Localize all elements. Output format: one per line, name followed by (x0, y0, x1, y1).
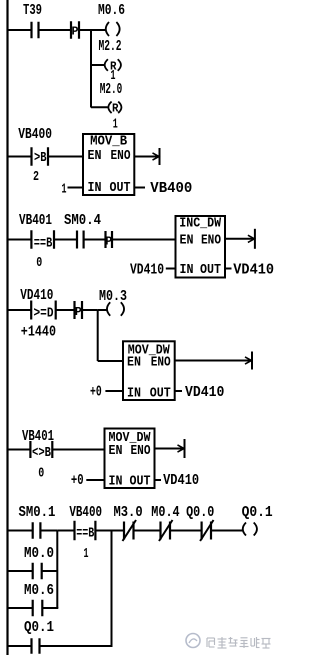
svg-text:<>B: <>B (32, 446, 51, 461)
label VB400 (rung 6) (69, 505, 102, 521)
value VD410 at OUT (INC_DW) (233, 263, 274, 279)
wire M0.6 to node C line (43, 607, 59, 609)
wire compare to SM0.4 contact (55, 239, 78, 241)
pin OUT (INC_DW) (200, 263, 221, 278)
label T39 (23, 3, 42, 19)
value 1 below M2.0 reset (113, 118, 118, 133)
wire ==B to node D (96, 530, 112, 532)
svg-text:OUT: OUT (150, 387, 171, 402)
wire P to node B (83, 309, 98, 311)
svg-text:1: 1 (62, 183, 67, 198)
value VD410 at IN (INC_DW) (130, 263, 164, 279)
wire node D to M3.0 contact (112, 530, 125, 532)
reset coil M2.0 (R) (108, 102, 121, 116)
wire +0 to IN (rung 5) (86, 479, 104, 481)
pin ENO (MOV_B) (111, 149, 131, 164)
wire OUT to VB400 (134, 187, 145, 189)
box MOV_B (83, 134, 134, 195)
svg-text:IN: IN (127, 387, 141, 402)
label VD410 (rung 4) (20, 288, 53, 304)
wire node C to compare ==B (rung 6) (57, 530, 74, 532)
box MOV_DW (rung 4) (123, 341, 175, 400)
value 2 below compare (33, 170, 39, 185)
label Q0.1 (coil label) (242, 505, 273, 521)
pin IN (MOV_DW rung 4) (127, 387, 141, 402)
wire M0.4 to Q0.0 (171, 530, 202, 532)
label VB401 (rung 5) (22, 429, 54, 445)
title INC_DW (179, 217, 222, 232)
value +0 at IN (rung 5) (71, 473, 84, 489)
svg-text:P: P (75, 305, 82, 319)
svg-text:1: 1 (113, 118, 118, 133)
label VB400 (rung 2) (18, 127, 52, 143)
label M0.6 (parallel branch) (24, 583, 54, 599)
contact M0.0 (33, 563, 42, 580)
wire branch to EN (MOV_DW rung 4) (98, 360, 123, 362)
value 0 below compare <>B (38, 467, 44, 482)
edge contact P (rung 4) (75, 301, 83, 319)
svg-text:VB400: VB400 (150, 181, 192, 197)
arrow out of ENO (MOV_DW rung 5) (155, 439, 185, 458)
wire +0 to IN (rung 4) (105, 390, 123, 392)
svg-text:M0.0: M0.0 (24, 546, 54, 562)
contact SM0.1 (33, 522, 41, 539)
pin ENO (INC_DW) (201, 234, 221, 249)
pin OUT (MOV_DW rung 4) (150, 387, 171, 402)
label M3.0 (114, 505, 143, 521)
value 1 below ==B (rung 6) (84, 547, 89, 562)
svg-text:VD410: VD410 (233, 263, 274, 279)
svg-text:2: 2 (33, 170, 39, 185)
compare contact >=D (31, 301, 56, 322)
svg-text:>B: >B (34, 151, 47, 166)
svg-text:+0: +0 (90, 385, 102, 401)
left power rail (6, 0, 8, 655)
svg-text:ENO: ENO (151, 356, 171, 371)
wire OUT to VD410 (rung 5) (155, 479, 162, 481)
svg-text:VB401: VB401 (19, 213, 52, 229)
reset coil M2.2 (R) (105, 59, 121, 73)
svg-text:0: 0 (38, 467, 44, 482)
wire Q0.1 contact to node D line (40, 645, 113, 647)
compare contact ==B (31, 230, 54, 251)
pin EN (MOV_DW rung 4) (127, 356, 141, 371)
label M0.6 (98, 3, 125, 19)
wire rail to Q0.1 contact (9, 645, 32, 647)
svg-text:SM0.1: SM0.1 (19, 505, 56, 521)
wire OUT to VD410 (rung 4) (175, 390, 182, 392)
compare contact <>B (30, 441, 52, 461)
svg-text:==B: ==B (34, 236, 53, 251)
wire P to INC_DW box (113, 239, 176, 241)
svg-text:ENO: ENO (201, 234, 221, 249)
svg-text:M0.6: M0.6 (24, 583, 54, 599)
label M2.2 (99, 39, 122, 55)
pin OUT (MOV_B) (110, 181, 131, 196)
arrow out of ENO (MOV_DW rung 4) (175, 352, 252, 370)
node B branch wire down (97, 310, 99, 361)
wire rail to SM0.1 contact (9, 530, 33, 532)
label M0.0 (24, 546, 54, 562)
contact M0.6 (parallel branch) (33, 600, 43, 617)
svg-text:ENO: ENO (111, 149, 131, 164)
svg-text:EN: EN (127, 356, 141, 371)
svg-text:P: P (105, 234, 112, 248)
svg-text:M0.4: M0.4 (151, 505, 180, 521)
edge contact P (rung 3) (105, 231, 112, 248)
svg-text:SM0.4: SM0.4 (64, 213, 101, 229)
svg-text:VB400: VB400 (69, 505, 102, 521)
label M0.4 (151, 505, 180, 521)
wire P to node A (79, 29, 92, 31)
svg-text:ENO: ENO (131, 444, 151, 459)
title MOV_DW (rung 5) (109, 431, 152, 446)
wire rail to T39 contact (9, 29, 32, 31)
label Q0.0 (186, 505, 214, 521)
svg-text:>=D: >=D (34, 306, 54, 321)
svg-text:EN: EN (180, 234, 194, 249)
wire T39 to P contact (40, 29, 72, 31)
NC contact M0.4 (159, 520, 173, 541)
pin IN (MOV_B) (88, 181, 102, 196)
svg-text:M0.3: M0.3 (99, 289, 127, 305)
svg-text:IN: IN (180, 263, 194, 278)
svg-text:VD410: VD410 (130, 263, 164, 279)
wire value 1 to IN (68, 187, 84, 189)
NC contact M3.0 (123, 520, 137, 541)
value 1 at IN (MOV_B) (62, 183, 67, 198)
coil M0.3 (107, 302, 124, 316)
svg-text:M3.0: M3.0 (114, 505, 143, 521)
coil M0.6 (106, 22, 120, 36)
wire node B to coil M0.3 (98, 309, 107, 311)
svg-text:M2.0: M2.0 (100, 82, 123, 98)
svg-text:OUT: OUT (200, 263, 221, 278)
compare contact ==B (rung 6) (75, 521, 96, 542)
edge contact P (rung 1) (71, 21, 79, 39)
wire OUT to VD410 (INC_DW) (225, 268, 232, 270)
svg-text:M0.6: M0.6 (98, 3, 125, 19)
coil Q0.1 (243, 523, 257, 536)
wire VD410 to IN (166, 268, 176, 270)
value 1 below M2.2 reset (111, 69, 116, 84)
wire rail to M0.6 contact (9, 607, 33, 609)
svg-text:EN: EN (109, 444, 123, 459)
svg-text:R: R (112, 102, 119, 116)
svg-text:M2.2: M2.2 (99, 39, 122, 55)
wire M3.0 to M0.4 (134, 530, 161, 532)
NC contact Q0.0 (200, 520, 213, 541)
wire branch to reset coil M2.2 (91, 64, 105, 66)
value VB400 at OUT (150, 181, 192, 197)
svg-text:VD410: VD410 (185, 385, 224, 401)
wire SM0.4 to P contact (84, 239, 106, 241)
svg-text:MOV_B: MOV_B (90, 135, 127, 150)
value +0 at IN (rung 4) (90, 385, 102, 401)
node C branch wire down (56, 531, 58, 609)
svg-text:Q0.0: Q0.0 (186, 505, 214, 521)
svg-text:EN: EN (88, 149, 102, 164)
wire compare to MOV_DW box (rung 5) (53, 449, 105, 451)
title MOV_DW (rung 4) (128, 343, 171, 358)
svg-text:VD410: VD410 (20, 288, 53, 304)
svg-text:1: 1 (84, 547, 89, 562)
wire node A to coil M0.6 (91, 29, 106, 31)
pin ENO (MOV_DW rung 5) (131, 444, 151, 459)
value VD410 at OUT (rung 4) (185, 385, 224, 401)
pin IN (MOV_DW rung 5) (109, 475, 123, 490)
node A branch wire down (90, 29, 92, 108)
svg-text:VB400: VB400 (18, 127, 52, 143)
svg-text:+0: +0 (71, 473, 84, 489)
wire branch to reset coil M2.0 (91, 106, 108, 108)
pin EN (MOV_B) (88, 149, 102, 164)
label M2.0 (100, 82, 123, 98)
svg-text:IN: IN (88, 181, 102, 196)
label M0.3 (99, 289, 127, 305)
svg-text:INC_DW: INC_DW (179, 217, 222, 232)
pin OUT (MOV_DW rung 5) (130, 475, 151, 490)
svg-text:0: 0 (36, 256, 42, 271)
svg-text:Q0.1: Q0.1 (24, 620, 54, 636)
svg-text:==B: ==B (76, 527, 94, 542)
value +1440 below compare (21, 325, 56, 341)
value VD410 at OUT (rung 5) (163, 473, 199, 489)
label VB401 (rung 3) (19, 213, 52, 229)
compare contact >B (32, 147, 49, 166)
title MOV_B (90, 135, 127, 150)
wire rail to compare ==B (9, 239, 32, 241)
svg-text:IN: IN (109, 475, 123, 490)
wire rail to compare <>B (9, 449, 31, 451)
wire M0.0 to node C line (42, 570, 57, 572)
label Q0.1 (feedback contact) (24, 620, 54, 636)
box INC_DW (176, 216, 226, 278)
arrow out of ENO (MOV_B) (134, 148, 159, 165)
wire Q0.0 to coil Q0.1 (212, 530, 243, 532)
pin IN (INC_DW) (180, 263, 194, 278)
svg-text:OUT: OUT (130, 475, 151, 490)
svg-text:+1440: +1440 (21, 325, 56, 341)
value 0 below compare ==B (36, 256, 42, 271)
svg-text:P: P (72, 25, 79, 39)
box MOV_DW (rung 5) (105, 429, 155, 489)
pin EN (INC_DW) (180, 234, 194, 249)
svg-text:VB401: VB401 (22, 429, 54, 445)
contact SM0.4 (77, 231, 84, 249)
arrow out of ENO (INC_DW) (225, 229, 255, 249)
pin EN (MOV_DW rung 5) (109, 444, 123, 459)
svg-text:VD410: VD410 (163, 473, 199, 489)
node D branch wire down (111, 531, 113, 647)
label SM0.4 (64, 213, 101, 229)
watermark text (pseudo CJK strokes) (207, 637, 271, 648)
wire rail to compare >=D (9, 309, 32, 311)
label SM0.1 (19, 505, 56, 521)
wire compare to MOV_B box (49, 156, 84, 158)
wire SM0.1 to node C (41, 530, 57, 532)
svg-text:OUT: OUT (110, 181, 131, 196)
watermark logo icon (186, 634, 200, 648)
contact T39 (32, 22, 39, 39)
svg-text:Q0.1: Q0.1 (242, 505, 273, 521)
wire rail to M0.0 contact (9, 570, 33, 572)
contact Q0.1 (feedback) (32, 638, 40, 654)
wire compare to P contact (56, 309, 75, 311)
svg-text:T39: T39 (23, 3, 42, 19)
wire rail to compare >B (9, 156, 32, 158)
pin ENO (MOV_DW rung 4) (151, 356, 171, 371)
